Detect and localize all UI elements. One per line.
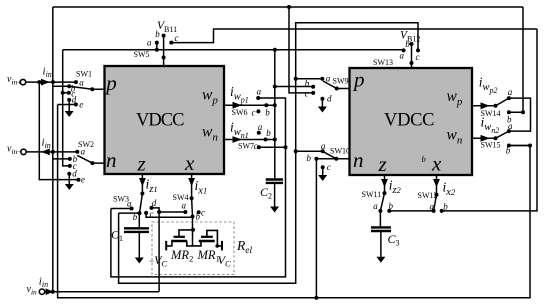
svg-text:SW7: SW7 <box>238 142 254 151</box>
svg-text:iin: iin <box>39 276 48 290</box>
svg-text:a: a <box>127 198 132 208</box>
svg-text:a: a <box>79 78 84 88</box>
node SW14 pole and contacts a b <box>494 104 498 108</box>
svg-text:C3: C3 <box>388 232 400 248</box>
svg-text:MR2: MR2 <box>170 248 193 264</box>
wire x2 pin down <box>436 175 438 195</box>
svg-text:C1: C1 <box>111 228 123 244</box>
node SW4 pole and contacts d a c b <box>190 196 194 200</box>
transistor MR2 channel bar <box>171 240 187 243</box>
wire SW3-c stub and link to SW4-b <box>146 213 192 217</box>
transistor MR2 drain lead <box>179 230 193 237</box>
wire SW2-e to v_in+ junction <box>39 82 78 180</box>
svg-text:iwp2: iwp2 <box>479 75 498 96</box>
wire SW4-a <box>159 211 185 213</box>
current arrow i_wp2 <box>481 102 490 109</box>
current arrow i_wn1 <box>233 136 242 143</box>
wire v_in riser to SW4 d/a <box>158 212 160 292</box>
svg-text:a: a <box>373 201 378 211</box>
svg-text:b: b <box>443 201 448 211</box>
wire SW1 arm and p1 pin <box>69 86 104 89</box>
svg-text:a: a <box>400 51 405 61</box>
wire SW2 arm and n1 pin <box>77 155 104 163</box>
current arrow i_x2 down <box>433 179 440 188</box>
resistor R_el dashed box <box>152 222 234 275</box>
wire top dot to SW9-c <box>289 7 313 93</box>
transistor MR2 right step <box>187 241 193 246</box>
wire SW2-d ground stub <box>68 174 70 184</box>
wire SW15-b <box>509 145 530 147</box>
terminal v_in <box>39 289 44 294</box>
node top border junction <box>287 5 291 9</box>
svg-text:SW9: SW9 <box>333 77 349 86</box>
svg-text:p: p <box>352 68 365 92</box>
wire w_n1 output <box>224 139 275 141</box>
svg-text:iwn1: iwn1 <box>230 120 249 141</box>
svg-text:b: b <box>305 79 310 89</box>
ground SW1-d <box>65 111 74 117</box>
svg-text:c: c <box>305 89 309 99</box>
current arrow i_wn2 <box>481 135 490 142</box>
capacitor C1 plates <box>124 227 149 229</box>
wire SW9-b <box>275 86 313 88</box>
svg-text:z: z <box>137 152 146 176</box>
svg-text:SW4: SW4 <box>173 193 189 202</box>
wire x1 pin down <box>191 174 193 198</box>
transistor MR1 top bar <box>201 236 213 238</box>
wire SW4-d <box>152 208 160 212</box>
svg-text:d: d <box>72 95 77 105</box>
wire SW9-d ground stub <box>321 99 323 107</box>
svg-text:a: a <box>326 74 331 84</box>
svg-text:iwp1: iwp1 <box>230 84 249 105</box>
wire SW14-a to SW15-a jog <box>509 98 531 131</box>
transistor MR1 gate bridge <box>207 230 222 246</box>
svg-text:VDCC: VDCC <box>136 110 185 130</box>
wire SW1-d ground stub <box>68 100 70 111</box>
wire SW1-e <box>58 104 76 106</box>
svg-text:x: x <box>431 151 442 175</box>
svg-text:ix1: ix1 <box>195 178 208 197</box>
ground C1 <box>135 258 144 264</box>
svg-text:a: a <box>321 141 326 151</box>
svg-text:b: b <box>265 108 270 118</box>
svg-text:x: x <box>184 151 195 175</box>
wire VB11-c to right rail y29 <box>171 29 537 43</box>
svg-text:c: c <box>175 33 179 43</box>
svg-text:iz1: iz1 <box>146 177 158 196</box>
svg-text:c: c <box>252 107 256 117</box>
terminal v_in- <box>21 149 26 154</box>
node rail50 junction x275 <box>273 48 277 52</box>
node SW12 pole and contacts a b <box>435 193 439 197</box>
wire SW4 arm <box>191 198 194 216</box>
wire v_in- <box>26 151 77 153</box>
svg-text:b: b <box>155 29 160 39</box>
transistor MR1 gate tick <box>221 241 223 251</box>
wire SW10 arm <box>324 152 337 159</box>
node SW5 contacts a b c and pole <box>155 41 159 45</box>
svg-text:z: z <box>378 152 387 176</box>
svg-text:c: c <box>150 209 154 219</box>
svg-text:e: e <box>81 175 85 185</box>
wire top border rail <box>53 6 523 8</box>
svg-text:b: b <box>196 211 201 221</box>
capacitor C3 ground stem <box>380 231 382 257</box>
wire right vertical x537 to SW12-b <box>442 29 537 211</box>
ground SW10-c <box>318 175 327 181</box>
svg-text:a: a <box>258 122 263 132</box>
wire z2 pin down <box>384 175 386 193</box>
svg-text:p: p <box>104 71 117 95</box>
node SW2 contacts a b c d e and pole <box>75 150 79 154</box>
svg-text:vin: vin <box>27 284 38 297</box>
node SW11 pole and contacts a b <box>383 191 387 195</box>
transistor MR2 source tick <box>165 241 167 251</box>
svg-text:vin+: vin+ <box>7 74 22 87</box>
wire z1 pin down <box>141 174 143 194</box>
wire SW15 arm <box>496 131 509 138</box>
op-amp block VDCC U2 <box>350 68 473 175</box>
svg-text:n: n <box>353 148 364 172</box>
node MR common drain <box>191 228 195 232</box>
wire vertical x295.7 down to rail2 <box>119 79 296 284</box>
current arrow i_wp1 <box>233 102 242 109</box>
svg-text:b: b <box>266 128 271 138</box>
wire SW2-b <box>53 158 70 160</box>
node SW15 pole and contacts a b <box>494 136 498 140</box>
svg-text:d: d <box>327 94 332 104</box>
wire SW1-b <box>53 85 69 87</box>
svg-text:ix2: ix2 <box>443 180 456 199</box>
svg-text:SW15: SW15 <box>481 141 501 150</box>
svg-text:Rel: Rel <box>236 238 252 256</box>
wire SW14 arm <box>496 98 509 106</box>
svg-text:a: a <box>257 86 262 96</box>
wire SW10-c ground stub <box>322 167 324 175</box>
wire SW5 pole arm and bias stub <box>163 36 165 66</box>
capacitor C3 stem from SW11-a <box>379 211 381 228</box>
wire SW9-a <box>296 78 323 80</box>
svg-text:iz2: iz2 <box>389 178 402 197</box>
node SW1 contacts a b c d e and pole <box>74 80 78 84</box>
svg-text:a: a <box>182 201 187 211</box>
op-amp block VDCC U1 <box>105 66 225 174</box>
terminal v_in+ <box>20 79 25 84</box>
wire vertical x274.8 rail50 to C2 <box>274 50 276 179</box>
wire v_in bottom <box>45 291 159 293</box>
wire SW6-a down to rail1 <box>111 98 286 277</box>
svg-text:vin−: vin− <box>7 144 22 157</box>
wire SW3-a <box>111 208 132 210</box>
current arrow i_x1 down <box>188 178 195 187</box>
node SW3 pole and contacts a b c <box>140 192 144 196</box>
svg-text:e: e <box>79 100 83 110</box>
wire bottom rail <box>58 105 530 298</box>
wire VB12-c to SW9-a vertical <box>296 23 418 79</box>
svg-text:c: c <box>327 162 331 172</box>
current arrow i_z2 down <box>381 179 388 188</box>
wire SW12 arm <box>434 195 437 211</box>
wire SW10-b to pole to n2 <box>316 158 349 160</box>
node bottom rail junction <box>314 296 318 300</box>
svg-text:−VC: −VC <box>149 253 167 269</box>
wire SW10-a <box>296 150 323 152</box>
wire SW1c/SW2c riser x62.7 <box>63 50 70 166</box>
svg-text:MR1: MR1 <box>197 248 220 264</box>
svg-text:iin: iin <box>42 137 51 151</box>
ground SW9-d <box>318 107 327 113</box>
ground C2 <box>270 207 279 213</box>
svg-text:c: c <box>416 52 420 62</box>
svg-text:SW13: SW13 <box>373 58 393 67</box>
svg-text:a: a <box>508 87 513 97</box>
capacitor C2 plates <box>266 178 283 180</box>
svg-text:b: b <box>133 212 138 222</box>
wire SW11 arm <box>380 193 384 211</box>
wire rail y50 SW5a-SW13a <box>63 49 404 51</box>
ground C3 <box>376 257 385 263</box>
svg-text:a: a <box>508 121 513 131</box>
wire v_in+ <box>26 81 76 83</box>
current arrow i_in left (v_in-) <box>41 149 50 156</box>
wire w_p2 output <box>472 105 496 107</box>
svg-text:b: b <box>506 145 511 155</box>
svg-text:n: n <box>106 148 117 172</box>
node SW6 contacts a b c and junction <box>256 96 260 100</box>
transistor MR1 channel bar <box>199 240 215 243</box>
svg-text:VC: VC <box>218 253 231 269</box>
capacitor C1 ground stem <box>138 232 140 258</box>
node v_in- junction <box>51 150 55 154</box>
node SW9 contacts a b c d and pole <box>320 77 324 81</box>
wire SW13 pole arm and bias stub <box>411 44 413 68</box>
node SW13 contacts a b c and pole <box>402 48 406 52</box>
svg-text:a: a <box>147 38 152 48</box>
svg-text:SW6: SW6 <box>232 108 248 117</box>
svg-text:a: a <box>430 201 435 211</box>
svg-text:iin: iin <box>43 66 52 80</box>
svg-text:SW14: SW14 <box>481 109 501 118</box>
svg-text:SW5: SW5 <box>134 50 150 59</box>
wire SW1-c <box>63 92 69 94</box>
svg-text:b: b <box>307 153 312 163</box>
svg-text:b: b <box>405 39 410 49</box>
wire SW5-a stub <box>156 43 158 50</box>
wire SW10-b riser to bottom rail <box>315 159 317 298</box>
wire w_p1 output <box>224 104 275 106</box>
transistor MR2 source step <box>166 241 172 246</box>
svg-text:c: c <box>254 141 258 151</box>
current arrow i_z1 down <box>139 178 146 187</box>
node SW7 contacts a b c and junctions <box>257 131 261 135</box>
svg-text:d: d <box>152 198 157 208</box>
wire left vertical v_in chain <box>52 7 54 292</box>
capacitor C1 stem top <box>138 213 140 228</box>
transistor MR1 left step <box>193 241 202 246</box>
wire SW11-b to SW12-a <box>389 210 433 212</box>
svg-text:c: c <box>201 208 205 218</box>
svg-text:VDCC: VDCC <box>384 110 435 130</box>
wire SW7-c <box>259 146 286 148</box>
node v_in+ junctions <box>51 80 55 84</box>
svg-text:b: b <box>389 201 394 211</box>
node v_in bottom junction <box>51 290 55 294</box>
wire SW4-b to MR common node <box>192 217 194 246</box>
capacitor C3 plates <box>371 226 391 228</box>
svg-text:SW10: SW10 <box>330 147 350 156</box>
svg-text:SW11: SW11 <box>362 190 382 199</box>
node SW10 contacts a b c and pole <box>321 149 325 153</box>
wire SW9 arm and p2 pin <box>323 81 350 89</box>
wire SW3-b left to rail2 riser <box>119 212 140 214</box>
wire SW14-b to top border <box>509 7 523 112</box>
current arrow i_in right (v_in bottom) <box>46 288 54 295</box>
transistor MR2 top bar <box>174 236 185 238</box>
svg-text:b: b <box>422 154 426 164</box>
wire w_n2 output <box>472 137 496 139</box>
svg-text:d: d <box>72 168 77 178</box>
ground SW2-d <box>65 184 74 190</box>
wire SW3 arm <box>140 194 143 214</box>
capacitor C2 ground stem <box>274 183 276 207</box>
current arrow i_in right (v_in+) <box>41 79 50 86</box>
svg-text:a: a <box>81 147 86 157</box>
svg-text:C2: C2 <box>260 185 272 201</box>
svg-text:SW12: SW12 <box>418 191 438 200</box>
